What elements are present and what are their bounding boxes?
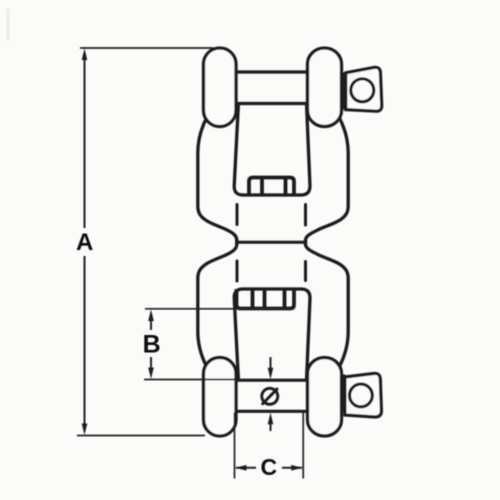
nut block top — [249, 178, 294, 196]
body outer top-right — [306, 117, 349, 244]
A extension bottom — [77, 435, 205, 437]
diameter symbol — [262, 388, 278, 404]
lobe top-left — [204, 48, 237, 127]
collar bottom — [341, 375, 346, 412]
body outer top-left — [198, 117, 237, 244]
dia arrow up — [268, 413, 274, 425]
A arrow down — [82, 424, 88, 436]
lobe bottom-left — [204, 358, 237, 437]
hidden stem dashed right — [304, 205, 307, 281]
swivel joint line — [237, 241, 306, 244]
eye top hole — [351, 79, 374, 102]
C arrow right — [291, 465, 303, 471]
dimension lines — [77, 48, 303, 479]
dia arrow down — [268, 368, 274, 380]
B dimension stems — [150, 317, 152, 371]
pin bottom — [236, 380, 308, 411]
svg-text:C: C — [260, 454, 277, 480]
B arrow up — [148, 310, 154, 322]
B extension bottom — [144, 379, 240, 381]
nut block bottom — [237, 289, 295, 309]
eye top — [346, 67, 382, 111]
A dimension line — [84, 54, 86, 430]
eye bottom hole — [350, 384, 373, 407]
B arrow down — [148, 368, 154, 380]
B extension top — [145, 308, 291, 310]
body outer bottom-right — [306, 240, 349, 367]
A extension top — [80, 47, 213, 49]
collar top — [341, 73, 346, 110]
jaw slot bottom — [234, 289, 310, 378]
hidden stem dashed left — [236, 205, 239, 282]
svg-text:B: B — [143, 331, 161, 359]
C dimension segments — [236, 467, 302, 469]
diameter arrows stems — [270, 357, 272, 431]
jaw slot top — [234, 106, 310, 195]
body outer bottom-left — [198, 240, 237, 367]
pin top — [236, 72, 308, 104]
lobe top-right — [308, 48, 342, 127]
C extension right — [302, 413, 304, 479]
A arrow up — [82, 49, 88, 61]
C extension left — [234, 413, 236, 479]
svg-text:A: A — [76, 229, 93, 256]
C arrow left — [235, 465, 247, 471]
lobe bottom-right — [308, 358, 342, 437]
eye bottom — [345, 373, 382, 417]
faint scan smudge top-left — [7, 9, 10, 41]
